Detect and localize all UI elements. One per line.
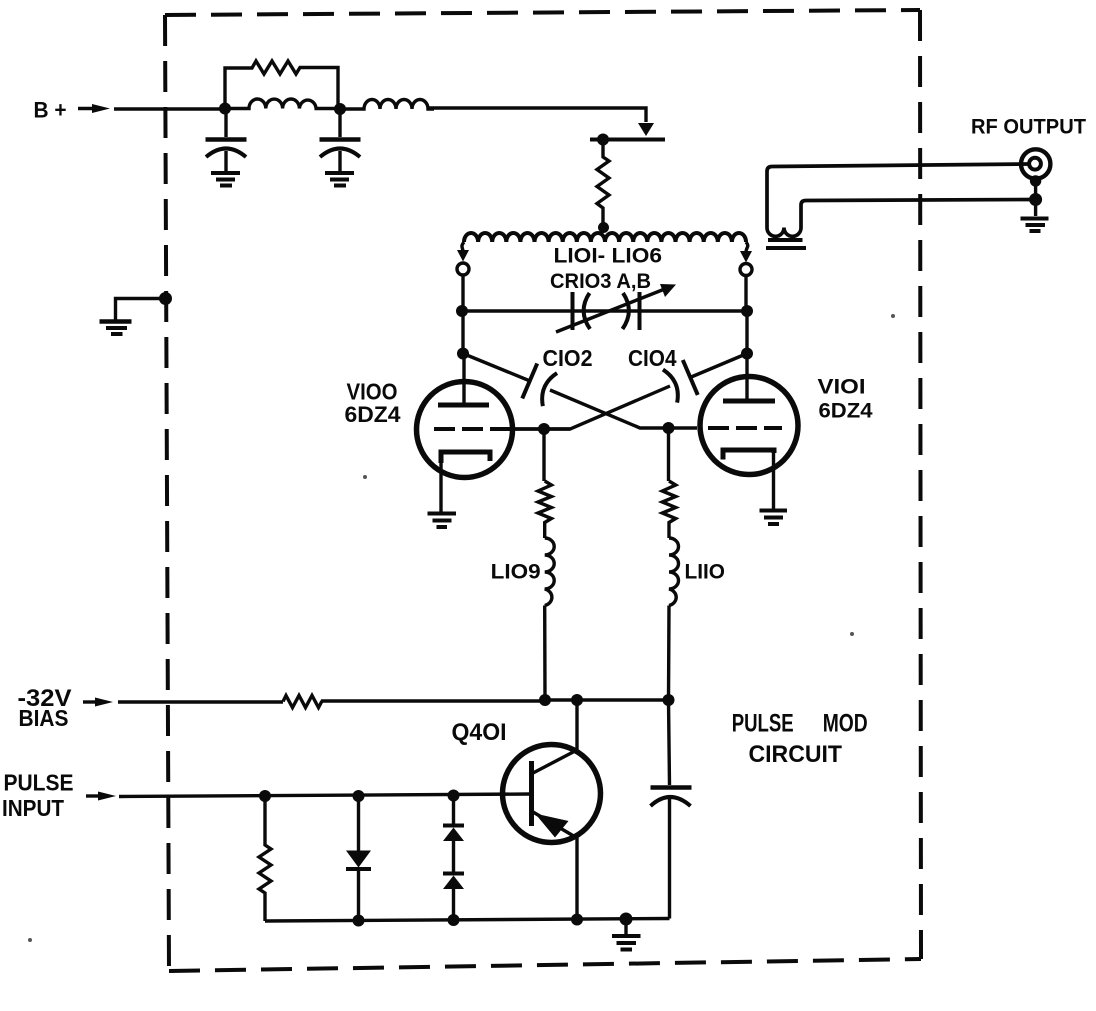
svg-text:MOD: MOD bbox=[823, 709, 868, 737]
Q401 collector bbox=[533, 700, 577, 773]
core lines bbox=[768, 238, 803, 242]
V100 grid lead bbox=[513, 427, 570, 430]
Q401 emitter arrow bbox=[535, 814, 569, 838]
diode CR-B2 (cathode up) bbox=[443, 874, 464, 921]
arrow pulse input bbox=[86, 794, 102, 797]
Q401 emitter bbox=[533, 812, 577, 920]
capacitor C-B (feedthrough at node B) bbox=[320, 109, 361, 171]
svg-text:VIOI: VIOI bbox=[818, 376, 866, 399]
svg-text:B +: B + bbox=[34, 98, 67, 123]
wire bias line bbox=[118, 700, 283, 703]
arrow bias input bbox=[83, 700, 99, 703]
ground (V100 cathode) bbox=[428, 514, 457, 528]
node shell/coax braid bbox=[1029, 193, 1042, 206]
resistor R-A (parallel with choke) bbox=[225, 61, 338, 109]
V100 plate lead bbox=[462, 354, 465, 404]
resistor R-input shunt bbox=[259, 796, 271, 921]
V101 plate lead bbox=[745, 354, 748, 400]
wire CR103 tuning bus bbox=[462, 309, 747, 312]
tube V100 envelope bbox=[417, 382, 513, 478]
node input/CR1 bbox=[353, 790, 365, 802]
node connector shell bbox=[1030, 175, 1041, 186]
node A junction bbox=[219, 103, 231, 115]
ground (emitter bus) bbox=[612, 919, 641, 950]
coil left terminal circle bbox=[457, 263, 469, 275]
wire left plate riser bbox=[461, 311, 464, 354]
tap bar wire bbox=[590, 138, 665, 142]
ground (RF connector) bbox=[1021, 219, 1049, 232]
wire coil left terminal down bbox=[461, 275, 464, 312]
node bias/L109 bbox=[539, 694, 551, 706]
svg-text:6DZ4: 6DZ4 bbox=[345, 402, 402, 427]
wire emitter return bus bbox=[265, 919, 670, 922]
inductor L109 bbox=[538, 429, 554, 700]
connector RF output shell bbox=[1021, 149, 1050, 178]
svg-text:CIO4: CIO4 bbox=[628, 345, 677, 371]
Q401 base bar bbox=[529, 761, 534, 826]
node bus/CR-A bbox=[353, 915, 365, 927]
wire pulse input line bbox=[119, 794, 531, 797]
ground (V101 cathode) bbox=[760, 511, 788, 525]
svg-text:CIO2: CIO2 bbox=[543, 345, 593, 371]
scan specks bbox=[28, 314, 895, 942]
inductor L110 bbox=[662, 428, 678, 700]
variable arrow through CR103 bbox=[556, 289, 666, 333]
wire B+ feed to plate tap bbox=[428, 108, 646, 122]
svg-text:INPUT: INPUT bbox=[2, 795, 65, 821]
wire cross-coupling diagonal V101 plate to V100 grid bbox=[690, 354, 747, 378]
enclosure dashed border bbox=[165, 10, 921, 971]
resistor R-bias bbox=[283, 696, 322, 708]
coil right lead arrow bbox=[746, 242, 748, 252]
wire shell to ground bbox=[1034, 181, 1037, 216]
junction at coil center tap bbox=[598, 222, 609, 233]
node bus/ground bbox=[620, 913, 633, 926]
wire bias to L110 node bbox=[545, 698, 669, 701]
V101 cathode bbox=[723, 450, 774, 460]
node bus/CR-B bbox=[448, 914, 460, 926]
svg-text:PULSE: PULSE bbox=[732, 709, 794, 737]
svg-text:CRIO3 A,B: CRIO3 A,B bbox=[550, 270, 651, 293]
svg-text:6DZ4: 6DZ4 bbox=[819, 400, 873, 423]
V100 plate bbox=[438, 403, 489, 408]
wire B+ to node A bbox=[114, 107, 225, 110]
capacitor CR103A (variable, left section) bbox=[573, 292, 591, 330]
connector center pin bbox=[1029, 158, 1041, 170]
svg-text:RF OUTPUT: RF OUTPUT bbox=[971, 114, 1086, 138]
ground (node A cap) bbox=[211, 173, 240, 186]
node bus/emitter bbox=[571, 914, 583, 926]
svg-text:LIO9: LIO9 bbox=[491, 561, 541, 584]
diode CR-B1 (cathode up) bbox=[443, 796, 464, 873]
ground (chassis) bbox=[100, 322, 132, 335]
inductor L-B (second choke) bbox=[340, 100, 434, 110]
diode CR-A (single, cathode down) bbox=[346, 796, 371, 920]
svg-text:BIAS: BIAS bbox=[19, 705, 69, 731]
node chassis ground on border bbox=[159, 292, 172, 305]
node bias/L110/cap bbox=[663, 694, 675, 706]
capacitor C104 bbox=[663, 360, 698, 404]
svg-text:PULSE: PULSE bbox=[4, 770, 74, 796]
ground (node B cap) bbox=[325, 173, 354, 186]
wire cross-coupling diagonal V100 plate to V101 grid bbox=[463, 354, 530, 382]
svg-text:LIIO: LIIO bbox=[685, 561, 726, 584]
node V100 grid bbox=[538, 423, 550, 435]
node input/R bbox=[259, 790, 271, 802]
svg-text:LIOI- LIO6: LIOI- LIO6 bbox=[554, 245, 663, 268]
tube V101 envelope bbox=[700, 377, 798, 475]
capacitor C102 bbox=[522, 363, 557, 407]
arrow down to tap bar bbox=[638, 123, 654, 136]
node B junction bbox=[334, 103, 346, 115]
V100 grid (dashed) bbox=[434, 427, 513, 431]
node left plate bbox=[457, 348, 469, 360]
V101 plate bbox=[723, 399, 775, 404]
node input/CR2 bbox=[448, 790, 460, 802]
node CR103 left junction bbox=[456, 305, 468, 317]
node collector junction bbox=[571, 694, 583, 706]
V101 grid (dashed) bbox=[708, 426, 782, 430]
junction on tap bar bbox=[597, 134, 609, 146]
capacitor C-mod (L110 node to bus) bbox=[651, 700, 692, 919]
V100 cathode lead bbox=[439, 455, 442, 512]
coil right terminal circle bbox=[740, 264, 752, 276]
V100 cathode bbox=[441, 452, 490, 463]
node right plate bbox=[741, 348, 753, 360]
node V101 grid bbox=[663, 422, 675, 434]
arrow B+ input bbox=[78, 107, 96, 110]
wire chassis ground bbox=[116, 299, 166, 321]
capacitor C-A (feedthrough at node A) bbox=[206, 109, 247, 172]
capacitor CR103B (variable, right section) bbox=[623, 292, 640, 330]
node CR103 right junction bbox=[741, 305, 753, 317]
inductor L101-L106 tank coil bbox=[464, 233, 746, 242]
inductor L-A (first choke) bbox=[225, 99, 340, 109]
svg-text:CIRCUIT: CIRCUIT bbox=[749, 741, 843, 768]
V101 cathode lead bbox=[772, 450, 775, 509]
wire coil right terminal down bbox=[744, 275, 747, 311]
transistor Q401 envelope bbox=[503, 745, 601, 843]
coil left lead arrow bbox=[462, 242, 464, 252]
RF pickup loop bbox=[767, 164, 1036, 236]
svg-text:Q4OI: Q4OI bbox=[452, 719, 507, 746]
wire right plate riser bbox=[745, 311, 748, 354]
resistor R-plate (to coil center) bbox=[597, 140, 609, 227]
svg-text:VIOO: VIOO bbox=[347, 379, 398, 405]
